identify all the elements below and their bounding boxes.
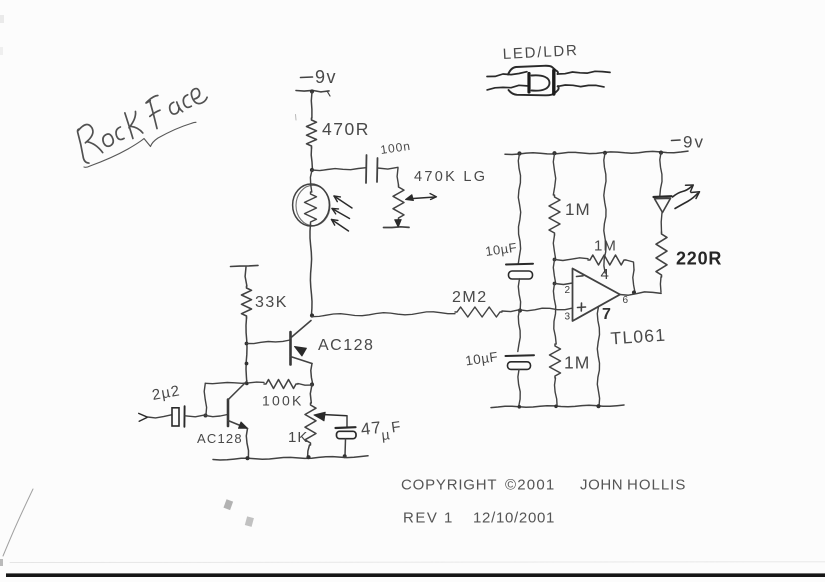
svg-text:AC128: AC128 — [318, 337, 374, 354]
svg-text:4: 4 — [601, 266, 609, 283]
svg-text:JOHN: JOHN — [580, 477, 623, 494]
svg-text:©2001: ©2001 — [505, 477, 555, 494]
svg-text:µ: µ — [381, 426, 391, 443]
svg-text:470R: 470R — [322, 119, 370, 139]
svg-text:2: 2 — [565, 285, 571, 296]
svg-text:9v: 9v — [683, 133, 705, 152]
svg-text:1K: 1K — [288, 429, 308, 446]
svg-text:COPYRIGHT: COPYRIGHT — [401, 477, 497, 494]
svg-text:7: 7 — [602, 306, 611, 323]
svg-text:100K: 100K — [262, 393, 304, 409]
svg-text:AC128: AC128 — [197, 431, 243, 446]
svg-text:6: 6 — [623, 295, 629, 306]
svg-text:1M: 1M — [565, 200, 591, 219]
svg-text:HOLLIS: HOLLIS — [627, 477, 686, 494]
svg-text:470K LG: 470K LG — [414, 169, 487, 185]
svg-text:1M: 1M — [564, 353, 590, 373]
svg-text:TL061: TL061 — [610, 325, 667, 349]
svg-text:220R: 220R — [676, 249, 722, 269]
svg-text:12/10/2001: 12/10/2001 — [473, 510, 555, 527]
svg-text:47: 47 — [360, 418, 383, 439]
svg-text:33K: 33K — [255, 294, 288, 311]
svg-text:3: 3 — [565, 312, 571, 323]
svg-text:9v: 9v — [315, 67, 337, 87]
svg-text:2M2: 2M2 — [452, 289, 488, 306]
svg-text:REV 1: REV 1 — [403, 510, 454, 527]
